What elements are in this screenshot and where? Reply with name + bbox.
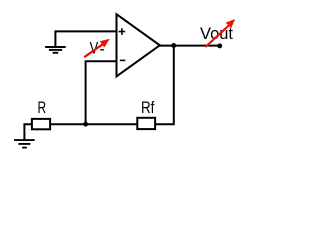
- svg-text:Vout: Vout: [200, 25, 233, 43]
- op-amp - pin mark: [120, 59, 125, 61]
- ground (bottom-left, at R): [14, 140, 35, 148]
- wire: inverting input down to feedback node: [86, 61, 117, 124]
- wire: R to ground: [24, 124, 32, 139]
- node: output junction dot: [171, 43, 176, 48]
- red arrow at Vout: [205, 26, 228, 47]
- wire: non-inverting input from ground to op-amp: [55, 31, 116, 46]
- resistor R: [32, 119, 50, 129]
- red arrow at V-: [84, 44, 103, 57]
- ground (top-left, at + input): [45, 47, 66, 53]
- wire: feedback from output node down through Rf: [155, 46, 174, 125]
- op-amp U1: [117, 14, 160, 76]
- op-amp + pin mark: [119, 28, 126, 35]
- svg-text:R: R: [38, 99, 47, 117]
- node: Vout terminal dot: [217, 43, 222, 48]
- wire: output to Vout terminal: [160, 45, 220, 47]
- node: feedback junction dot: [83, 122, 88, 127]
- wire: bottom rail R to Rf: [50, 123, 137, 125]
- svg-text:Rf: Rf: [141, 99, 155, 117]
- resistor Rf: [137, 118, 155, 129]
